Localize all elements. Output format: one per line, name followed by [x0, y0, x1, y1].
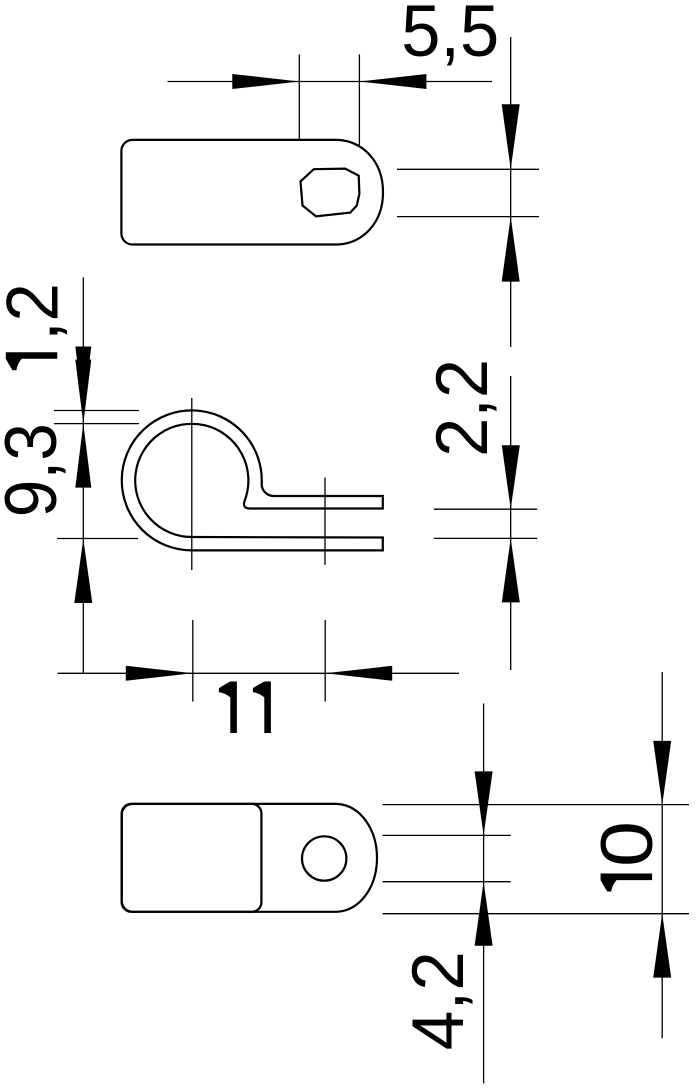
svg-text:5,5: 5,5	[401, 0, 499, 72]
dimension 5,5: left extension line	[298, 54, 300, 141]
svg-text:,: ,	[0, 321, 73, 341]
dimension 11: left extension line	[192, 620, 194, 702]
dimension 1,2: upper arrowhead	[75, 347, 91, 411]
bottom view: round screw hole	[302, 836, 346, 880]
dimension 1,2: inner extension line	[54, 423, 139, 425]
dimension 11: value label second digit 1	[253, 682, 271, 734]
dimension 5,5: right extension line	[358, 54, 360, 145]
top view: clamp foot outline	[121, 140, 383, 245]
dimension 11: dimension line	[58, 672, 460, 674]
hex hole height dimension: lower arrowhead	[502, 217, 520, 282]
dimension 5,5: dimension line	[168, 81, 493, 83]
dimension 4,2: upper extension line	[383, 834, 511, 836]
dimension 5,5: left arrowhead	[232, 74, 299, 89]
dimension 10: lower arrowhead	[653, 914, 671, 978]
dimension 1,2: lower arrowhead	[75, 424, 91, 488]
dimension 2,2: lower extension line	[434, 537, 537, 539]
side view: vertical centre line of loop	[191, 398, 193, 570]
dimension 2,2: upper extension line	[434, 508, 537, 510]
dimension 9,3: upper arrowhead	[75, 360, 91, 424]
left dimension line for 1,2 and 9,3	[82, 277, 84, 674]
svg-text:2: 2	[0, 283, 73, 322]
dimension 11: right extension line	[324, 620, 326, 702]
dimension 11: left arrowhead	[126, 666, 193, 681]
dimension 4,2: lower arrowhead	[475, 882, 493, 946]
dimension 4,2: upper arrowhead	[475, 771, 493, 835]
hex hole height dimension: dimension line lower segment	[510, 376, 512, 670]
svg-text:9,3: 9,3	[0, 423, 72, 517]
dimension 9,3: lower arrowhead	[74, 539, 92, 603]
svg-text:0: 0	[587, 821, 668, 867]
svg-text:2,2: 2,2	[422, 359, 503, 457]
side view: extension line through foot legs	[324, 478, 326, 566]
dimension 9,3: lower extension line	[57, 538, 138, 540]
dimension 4,2: dimension line	[483, 704, 485, 1084]
hex hole height dimension: upper arrowhead	[502, 104, 520, 169]
hex hole height dimension: dimension line upper segment	[510, 37, 512, 347]
dimension 5,5: right arrowhead	[359, 74, 426, 89]
top view: hexagonal screw hole	[301, 169, 360, 217]
dimension 10: dimension line	[661, 672, 663, 1038]
dimension 4,2: lower extension line	[383, 881, 511, 883]
dimension 1,2: outer extension line	[54, 410, 139, 412]
bottom view: clamp body block	[122, 804, 262, 912]
hex hole height dimension: upper extension line	[397, 168, 539, 170]
dimension 10: lower extension line	[383, 913, 690, 915]
dimension 11: value label first digit 1	[219, 682, 237, 734]
svg-text:4,2: 4,2	[398, 951, 479, 1050]
dimension 11: right arrowhead	[325, 666, 392, 681]
dimension 10: upper arrowhead	[653, 741, 671, 805]
dimension 1,2: value label digit 1	[6, 352, 58, 370]
dimension 2,2: lower arrowhead	[502, 538, 520, 602]
hex hole height dimension: lower extension line	[397, 216, 539, 218]
side view: P-clip strap outline	[122, 410, 383, 550]
dimension 10: value label digit 1	[601, 874, 653, 892]
dimension 10: upper extension line	[383, 804, 690, 806]
bottom view: clamp foot outline	[122, 804, 377, 912]
dimension 2,2: upper arrowhead	[502, 445, 520, 509]
